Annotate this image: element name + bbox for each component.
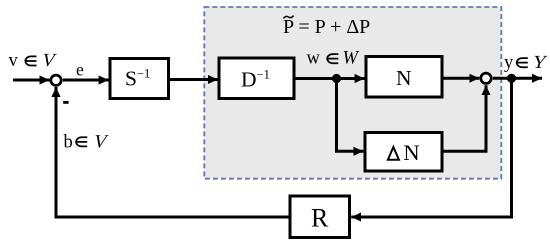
wire node w down to deltaN <box>337 81 364 151</box>
wire D to N <box>296 77 365 80</box>
wire deltaN to sum2 <box>443 85 487 151</box>
block N <box>366 57 442 98</box>
block R <box>290 196 350 238</box>
label v in V <box>9 50 59 71</box>
summing junction 1 <box>51 75 61 85</box>
wire R back to sum1 <box>56 87 290 217</box>
label w in W <box>307 48 360 68</box>
svg-text:y: y <box>504 53 514 73</box>
node w (junction dot) <box>332 74 341 83</box>
block D^-1 <box>219 58 294 99</box>
block S^-1 <box>110 59 169 99</box>
label b in V <box>64 132 111 153</box>
minus sign <box>63 101 68 104</box>
label y in Y <box>504 52 549 73</box>
block deltaN <box>365 133 442 172</box>
node y (junction dot) <box>507 74 516 83</box>
wire node y down to R <box>351 78 511 217</box>
svg-text:N: N <box>403 140 419 165</box>
svg-text:W: W <box>343 48 360 68</box>
summing junction 2 <box>481 73 491 83</box>
wire sum1 to S <box>63 79 109 82</box>
svg-text:v: v <box>9 51 19 71</box>
uncertainty region P-tilde (grey dashed box) <box>204 7 501 179</box>
svg-text:R: R <box>311 204 329 233</box>
wire N to sum2 <box>444 77 480 80</box>
label P-tilde = P + deltaP <box>283 16 370 38</box>
svg-text:P = P + ΔP: P = P + ΔP <box>283 16 370 38</box>
wire sum2 to output y <box>493 77 542 80</box>
svg-text:e: e <box>76 60 84 80</box>
svg-text:N: N <box>396 66 412 90</box>
wire S to D <box>170 78 218 81</box>
svg-text:w: w <box>307 48 321 68</box>
wire input v <box>13 79 50 82</box>
svg-text:b: b <box>64 133 73 153</box>
